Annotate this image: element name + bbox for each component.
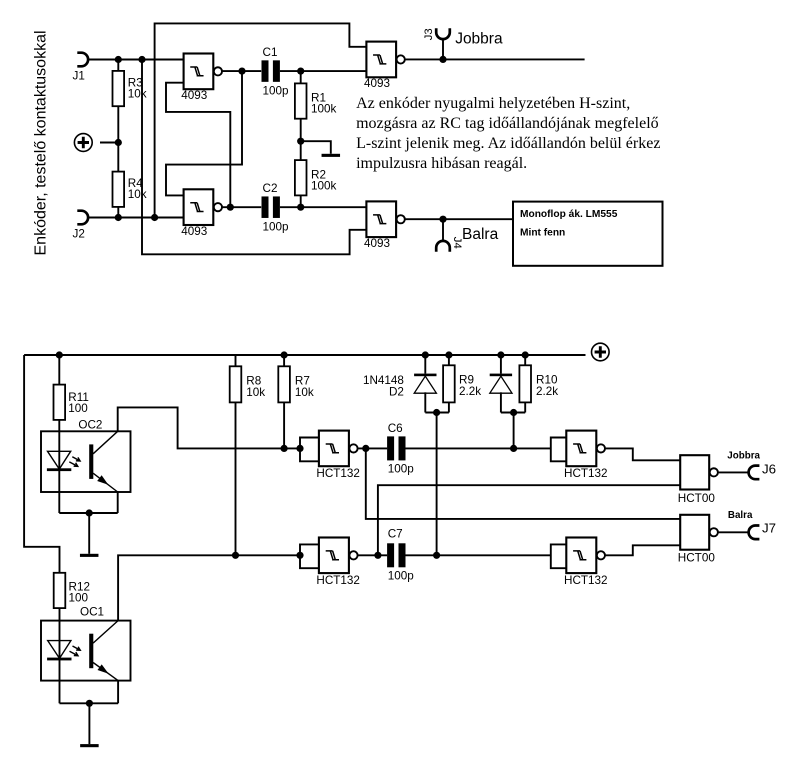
ground OC2	[80, 554, 99, 557]
node rail-R11	[56, 351, 63, 358]
svg-text:100: 100	[68, 402, 88, 415]
capacitor C1	[262, 60, 280, 82]
wire to ground stub	[301, 141, 331, 154]
svg-text:Mint fenn: Mint fenn	[520, 228, 565, 239]
capacitor C7	[387, 543, 405, 567]
nand gate G2 (HCT132)	[319, 538, 358, 574]
label C6	[388, 422, 415, 476]
wire OC2 LED cathode down	[58, 469, 60, 513]
wire U1 out to U2 upper input	[166, 71, 242, 195]
svg-text:Balra: Balra	[462, 226, 499, 243]
svg-text:10k: 10k	[246, 386, 265, 399]
wire D3-R10 joint	[501, 412, 525, 414]
svg-text:C1: C1	[263, 46, 278, 59]
label R3	[128, 76, 147, 100]
label U2 4093	[181, 225, 207, 238]
label R1	[311, 91, 337, 115]
power plus top	[74, 134, 92, 152]
wire R7 down to upper line	[283, 402, 285, 448]
wire R11 top stub	[58, 355, 60, 385]
wire R1 top stub	[300, 71, 302, 83]
node U2 out	[227, 204, 234, 211]
node G1 input tie	[296, 445, 303, 452]
node J4	[439, 216, 446, 223]
label J6	[762, 461, 776, 476]
label G6 HCT00	[678, 551, 716, 564]
wire R1 bottom	[300, 119, 302, 142]
node D2-R9	[433, 409, 440, 416]
connector J4	[436, 241, 450, 252]
svg-text:Balra: Balra	[728, 510, 753, 521]
OC1 LED light arrows	[70, 646, 81, 656]
wire U2 output	[222, 206, 261, 208]
node J2-R4	[115, 214, 122, 221]
gate G4 input loop	[551, 544, 567, 568]
svg-text:100p: 100p	[388, 463, 415, 476]
node J1-routeA	[138, 56, 145, 63]
diode D3	[490, 355, 512, 413]
wire J1 to gate U1 input	[88, 59, 184, 61]
label Monoflop ák. LM555	[520, 209, 618, 220]
wire OC1 bottom	[60, 702, 119, 704]
node rail-R9	[445, 351, 452, 358]
gate G2 input loop	[300, 544, 319, 568]
wire G4 output to HCT00-2	[605, 545, 680, 555]
OC1 phototransistor	[89, 621, 118, 681]
gate G1 input loop	[300, 438, 319, 462]
resistor R3	[113, 71, 125, 106]
resistor R2	[295, 160, 307, 195]
node G2 input tie	[296, 552, 303, 559]
power rail bottom	[24, 354, 585, 356]
node J1-R3	[115, 56, 122, 63]
wire C7 to G4	[406, 554, 551, 556]
svg-text:mozgásra az RC tag időállandój: mozgásra az RC tag időállandójának megfe…	[356, 115, 659, 132]
paragraph description text	[356, 95, 660, 172]
label G3 HCT132	[564, 467, 608, 480]
wire R8 down to lower line	[235, 402, 237, 555]
svg-text:C2: C2	[263, 182, 278, 195]
svg-text:J1: J1	[73, 70, 85, 83]
wire OC2 emitter down	[117, 492, 119, 513]
svg-text:4093: 4093	[181, 89, 207, 102]
svg-text:C7: C7	[388, 528, 403, 541]
resistor R11	[54, 385, 66, 420]
svg-text:Jobbra: Jobbra	[727, 450, 760, 461]
label J2	[73, 228, 85, 241]
node D3 upper join	[510, 445, 517, 452]
wire G6 output to J7	[718, 531, 749, 533]
wire OC1 LED cathode down	[59, 658, 61, 703]
wire G3 output to HCT00-1	[605, 448, 680, 460]
svg-text:HCT00: HCT00	[678, 492, 716, 505]
svg-text:J3: J3	[423, 28, 435, 40]
node rail-R10	[522, 351, 529, 358]
svg-text:10k: 10k	[128, 88, 147, 101]
svg-text:HCT00: HCT00	[678, 551, 716, 564]
svg-text:4093: 4093	[364, 77, 390, 90]
svg-text:C6: C6	[388, 422, 403, 435]
wire R3 to plus node	[117, 106, 119, 142]
label R12	[69, 581, 90, 605]
label R4	[128, 177, 147, 201]
label C7	[388, 528, 415, 583]
label R8	[246, 374, 265, 399]
label U3 4093	[364, 77, 390, 90]
svg-text:OC1: OC1	[80, 606, 104, 619]
wire rail to R12	[24, 355, 59, 573]
wire R2 bottom stub	[300, 195, 302, 207]
OC1 LED	[47, 641, 71, 661]
wire OC2 bottom	[59, 512, 117, 514]
wire G5 output to J6	[718, 471, 749, 473]
resistor R12	[54, 573, 66, 608]
wire cross G1 to HCT00-2	[366, 448, 680, 519]
node D3-R10	[510, 409, 517, 416]
label U4 4093	[364, 237, 390, 250]
svg-text:J4: J4	[451, 237, 463, 249]
nand gate U1 (4093)	[184, 54, 222, 90]
svg-text:10k: 10k	[295, 386, 314, 399]
wire route A: J1 down and across bottom to U4 lower input	[142, 60, 366, 255]
label Jobbra top	[455, 31, 503, 48]
wire R7 top stub	[283, 355, 285, 366]
svg-text:D2: D2	[389, 386, 404, 399]
wire R11 to OC2	[58, 420, 60, 469]
svg-text:100p: 100p	[388, 570, 415, 583]
svg-text:OC2: OC2	[78, 418, 102, 431]
node rail-D2	[422, 351, 429, 358]
connector J2	[77, 211, 88, 225]
power plus bottom	[592, 343, 610, 361]
label R10	[536, 374, 558, 399]
label C1	[263, 46, 290, 98]
resistor R1	[295, 83, 307, 118]
node C1-R1	[297, 68, 304, 75]
wire OC1 emitter down	[117, 681, 119, 704]
label Balra top	[462, 226, 499, 243]
label 1N4148 D2	[363, 374, 404, 399]
svg-text:100: 100	[69, 592, 89, 605]
wire OC1 collector route	[118, 555, 300, 620]
OC2 phototransistor	[89, 431, 118, 492]
ground divider	[322, 154, 341, 157]
nand gate G4 (HCT132)	[566, 538, 605, 574]
wire R12 to OC1	[59, 608, 61, 658]
nand gate U4 (4093)	[366, 201, 404, 237]
resistor R7	[278, 366, 290, 402]
label J7	[762, 521, 776, 536]
node G2 out	[374, 552, 381, 559]
nand gate U3 (4093)	[366, 42, 404, 78]
svg-text:L-szint jelenik meg. Az időáll: L-szint jelenik meg. Az időállandón belü…	[356, 135, 660, 152]
connector J1	[77, 53, 88, 67]
wire J2 to gate U2 input	[88, 217, 184, 219]
resistor R4	[113, 172, 125, 207]
wire plus to divider	[100, 142, 118, 144]
svg-text:100p: 100p	[263, 221, 290, 234]
optocoupler OC2 box	[41, 431, 131, 492]
node plus-divider	[115, 139, 122, 146]
wire divider to R4	[117, 143, 119, 172]
node rail-D3	[497, 351, 504, 358]
svg-text:100p: 100p	[263, 85, 290, 98]
svg-text:2.2k: 2.2k	[536, 385, 558, 398]
label G2 HCT132	[316, 574, 360, 587]
wire R8 top stub	[235, 355, 237, 366]
label G1 HCT132	[316, 467, 360, 480]
wire J3 stub	[442, 39, 444, 59]
node R7 join	[281, 445, 288, 452]
nand gate U2 (4093)	[184, 189, 222, 225]
label J3 rotated	[423, 28, 435, 40]
svg-text:HCT132: HCT132	[564, 574, 608, 587]
label R11	[68, 391, 89, 415]
label J1	[73, 70, 85, 83]
capacitor C2	[262, 196, 280, 218]
node R8 join	[232, 552, 239, 559]
svg-text:2.2k: 2.2k	[459, 385, 481, 398]
node OC2 ground	[86, 509, 93, 516]
svg-text:10k: 10k	[128, 188, 147, 201]
label OC2	[78, 418, 102, 431]
svg-text:J6: J6	[762, 461, 776, 476]
svg-text:100k: 100k	[311, 180, 337, 193]
node C2-R2	[297, 204, 304, 211]
label J4 rotated	[451, 237, 463, 249]
label C2	[263, 182, 290, 233]
label U1 4093	[181, 89, 207, 102]
wire U1 output	[222, 70, 261, 72]
nand gate G3 (HCT132)	[566, 431, 605, 467]
svg-text:J2: J2	[73, 228, 85, 241]
wire D2 joint down to lower line	[436, 413, 438, 556]
resistor R10	[519, 355, 531, 413]
node D2 lower join	[433, 552, 440, 559]
wire OC1 ground stub	[88, 703, 90, 744]
label G4 HCT132	[564, 574, 608, 587]
wire G1 output	[358, 447, 387, 449]
label G5 HCT00	[678, 492, 716, 505]
label Balra bottom	[728, 510, 753, 521]
wire D3 joint down to upper line	[513, 413, 515, 449]
nand gate G5 (HCT00)	[680, 455, 718, 489]
svg-text:HCT132: HCT132	[564, 467, 608, 480]
wire C1 to U3 lower input	[280, 70, 367, 72]
monoflop box	[513, 202, 663, 266]
vertical caption "Enkóder, testelő kontaktusokkal"	[33, 30, 50, 255]
wire D2-R9 joint	[425, 412, 449, 414]
node G1 out	[362, 445, 369, 452]
wire OC2 ground stub	[88, 513, 90, 554]
node J2-routeB	[151, 214, 158, 221]
svg-text:J7: J7	[762, 521, 776, 536]
node OC1 ground	[86, 700, 93, 707]
wire J4 stub	[442, 219, 444, 241]
wire G2 output	[358, 554, 387, 556]
nand gate G1 (HCT132)	[319, 431, 358, 467]
svg-text:HCT132: HCT132	[316, 467, 360, 480]
wire OC2 collector route	[118, 407, 300, 448]
OC2 LED	[47, 451, 71, 471]
label R2	[311, 168, 337, 192]
wire R2 top stub	[300, 141, 302, 160]
ground OC1	[80, 744, 99, 747]
label R7	[295, 374, 314, 399]
label Mint fenn	[520, 228, 565, 239]
nand gate G6 (HCT00)	[680, 515, 718, 550]
capacitor C6	[387, 436, 405, 460]
wire route B: J2 up and across top to U3 upper input	[155, 23, 367, 217]
node rail-R7	[281, 351, 288, 358]
svg-text:4093: 4093	[181, 225, 207, 238]
wire cross G2 to HCT00-1	[378, 485, 680, 555]
wire R3 top stub	[117, 60, 119, 71]
wire C2 to U4 upper input	[280, 206, 367, 208]
svg-text:Jobbra: Jobbra	[455, 31, 503, 48]
label R9	[459, 374, 481, 399]
node U1 out	[238, 68, 245, 75]
svg-text:100k: 100k	[311, 103, 337, 116]
label OC1	[80, 606, 104, 619]
optocoupler OC1 box	[41, 621, 131, 681]
svg-text:HCT132: HCT132	[316, 574, 360, 587]
connector J3	[436, 28, 450, 39]
diode D2	[414, 355, 436, 413]
connector J6	[749, 466, 760, 480]
wire U1 lower input from U2 output	[166, 83, 230, 208]
wire U4 output to monoflop box	[405, 218, 513, 220]
svg-text:Enkóder, testelő kontaktusokka: Enkóder, testelő kontaktusokkal	[33, 30, 50, 255]
OC2 LED light arrows	[69, 457, 80, 467]
wire U3 output to the right	[405, 58, 584, 60]
resistor R8	[230, 366, 242, 402]
svg-text:impulzusra hibásan reagál.: impulzusra hibásan reagál.	[356, 155, 527, 172]
svg-text:Monoflop ák. LM555: Monoflop ák. LM555	[520, 209, 618, 220]
wire R4 bottom stub	[117, 207, 119, 218]
svg-text:Az enkóder nyugalmi helyzetébe: Az enkóder nyugalmi helyzetében H-szint,	[356, 95, 630, 112]
gate G3 input loop	[551, 438, 567, 462]
node J3	[439, 56, 446, 63]
svg-text:4093: 4093	[364, 237, 390, 250]
resistor R9	[443, 355, 455, 413]
connector J7	[749, 526, 760, 540]
node R1-R2	[297, 138, 304, 145]
wire C6 to G3	[406, 447, 551, 449]
label Jobbra bottom	[727, 450, 760, 461]
